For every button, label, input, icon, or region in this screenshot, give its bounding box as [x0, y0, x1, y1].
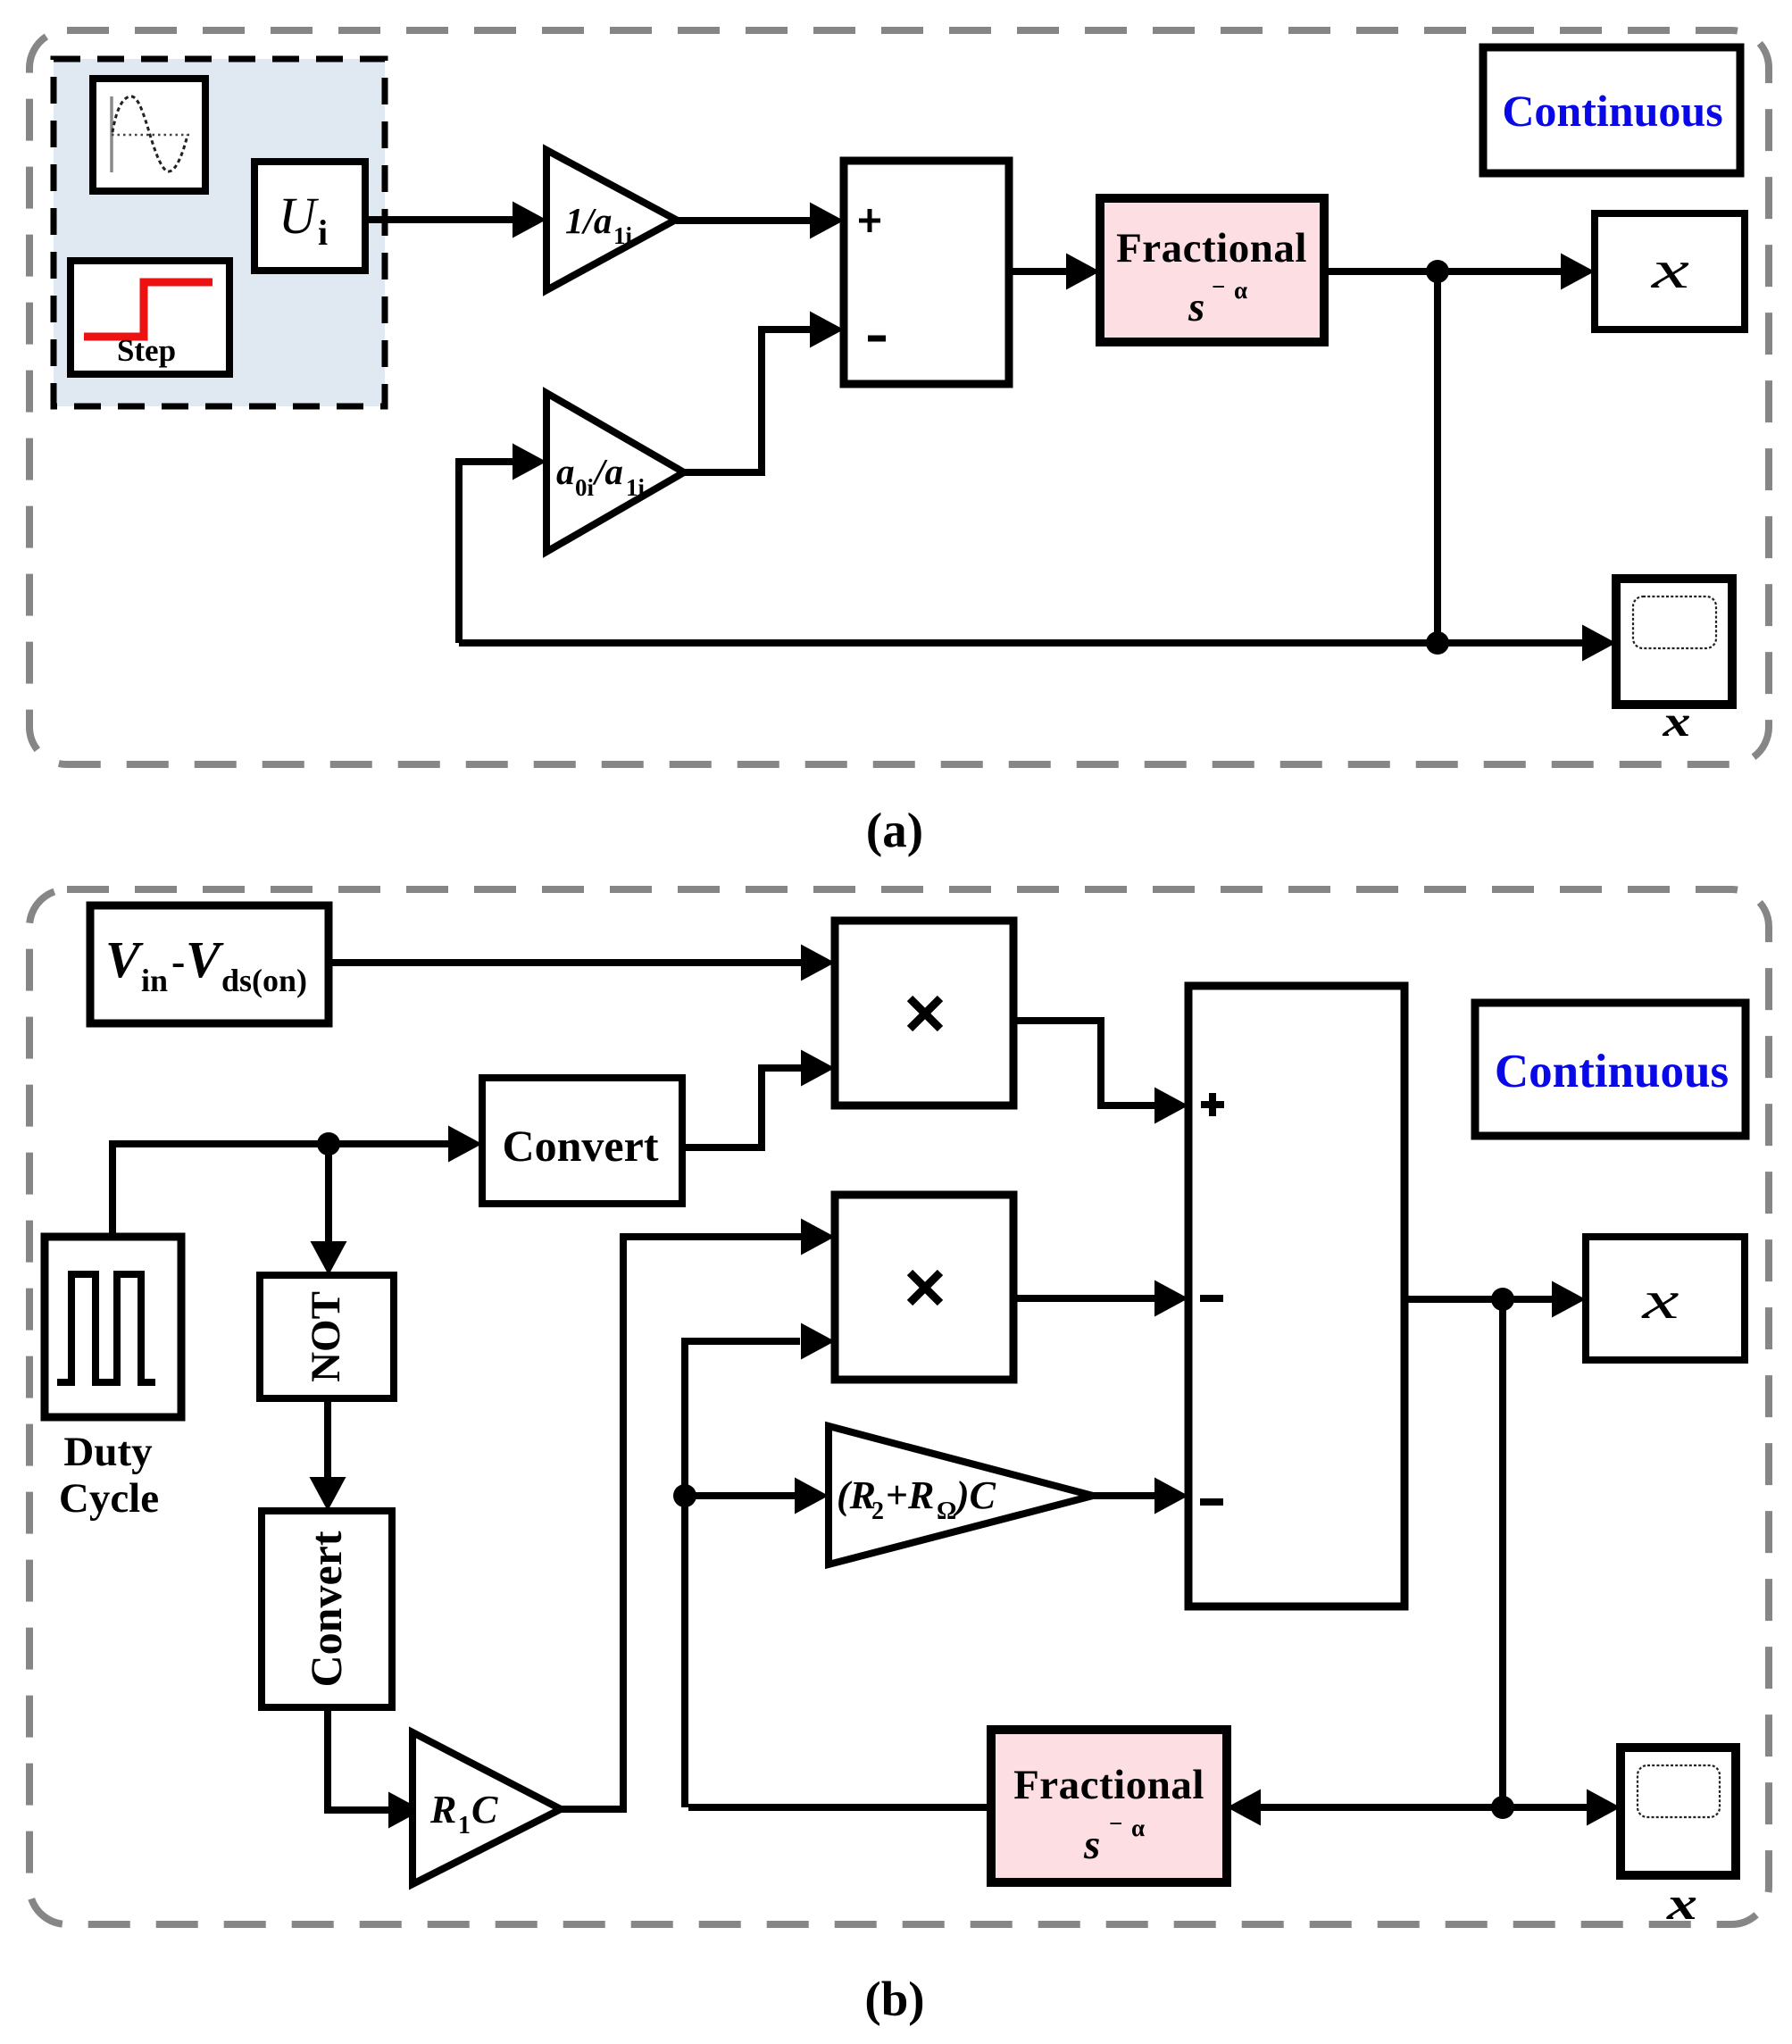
- Fractional s^-a block (a): [1100, 198, 1324, 342]
- wire gain 1/a1i to sum plus input: [676, 203, 844, 239]
- label (b): [864, 1972, 924, 2026]
- scope label x (b): [1666, 1879, 1697, 1930]
- wire junction to gain (R2+RO)C input: [685, 1478, 829, 1514]
- wire NOT to Convert vertical: [310, 1398, 346, 1511]
- svg-text:a: a: [556, 451, 575, 492]
- svg-text:NOT: NOT: [303, 1291, 349, 1382]
- junction node on scope (b) line: [1491, 1796, 1514, 1819]
- svg-text:R: R: [907, 1473, 934, 1517]
- wire Convert to product1 second input: [682, 1050, 835, 1148]
- junction node at sum (b) output: [1491, 1288, 1514, 1311]
- wire duty junction down to NOT: [311, 1144, 347, 1275]
- Duty Cycle source block: [45, 1237, 181, 1417]
- Fractional s^-a block (b): [991, 1730, 1227, 1882]
- svg-text:V: V: [105, 930, 144, 989]
- vertical wire from sum output junction down (b): [1499, 1299, 1506, 1807]
- svg-text:α: α: [1234, 277, 1247, 304]
- svg-text:U: U: [279, 187, 320, 245]
- svg-text:Convert: Convert: [503, 1121, 659, 1171]
- svg-text:V: V: [186, 930, 224, 989]
- Ui input block: [254, 162, 365, 271]
- svg-text:s: s: [1083, 1822, 1100, 1868]
- wire Convert vertical to gain R1C: [328, 1707, 422, 1829]
- Continuous annotation (b): [1475, 1003, 1746, 1136]
- svg-text:R: R: [429, 1788, 456, 1831]
- svg-text:1: 1: [458, 1812, 471, 1840]
- wire Vin to product1: [329, 945, 835, 981]
- gain R1C: [413, 1732, 561, 1884]
- svg-text:Step: Step: [117, 333, 176, 368]
- panel (b) dashed border: [29, 889, 1769, 1924]
- svg-text:in: in: [141, 963, 168, 998]
- svg-text:i: i: [318, 213, 328, 253]
- svg-text:(R: (R: [837, 1473, 876, 1517]
- label (a): [866, 803, 923, 857]
- product block 1: [835, 921, 1013, 1105]
- wire sum (b) to x display: [1404, 1281, 1586, 1318]
- input subsystem blue dashed box: [54, 59, 385, 406]
- wire Fractional (b) output to feedback riser: [688, 1804, 991, 1811]
- Convert block (vertical): [262, 1511, 392, 1707]
- svg-text:x: x: [1650, 240, 1689, 299]
- gain 1/a1i: [546, 150, 676, 290]
- feedback riser wire (b): [685, 1323, 835, 1808]
- svg-text:x: x: [1666, 1879, 1697, 1930]
- sum block (b): [1188, 986, 1404, 1606]
- svg-text:α: α: [1131, 1815, 1145, 1841]
- svg-text:Continuous: Continuous: [1495, 1046, 1729, 1097]
- svg-text:/a: /a: [592, 451, 623, 492]
- gain a0i/a1i: [546, 393, 684, 552]
- wire gain (R2+RO)C to sum second minus input: [1093, 1478, 1188, 1514]
- feedback wire to scope (a): [459, 625, 1616, 662]
- panel (a) dashed border: [29, 30, 1769, 764]
- svg-text:+: +: [886, 1473, 908, 1517]
- wire junction to Fractional (b) input: [1227, 1790, 1503, 1826]
- svg-text:C: C: [471, 1788, 498, 1831]
- wire feedback to gain a0i/a1i input: [459, 444, 546, 644]
- svg-text:Cycle: Cycle: [59, 1475, 159, 1522]
- sum block (a): [844, 161, 1009, 384]
- scope label x (a): [1662, 697, 1690, 746]
- wire junction down to feedback line: [1434, 271, 1441, 643]
- svg-text:Fractional: Fractional: [1116, 225, 1307, 271]
- svg-text:Continuous: Continuous: [1502, 86, 1722, 136]
- svg-text:Ω: Ω: [937, 1498, 956, 1525]
- svg-text:1i: 1i: [626, 474, 646, 501]
- gain (R2+RO)C: [829, 1426, 1093, 1564]
- wire Fractional to x display: [1324, 254, 1595, 290]
- Duty Cycle label: [59, 1429, 159, 1522]
- svg-text:-: -: [171, 939, 185, 984]
- svg-text:2: 2: [871, 1498, 884, 1525]
- svg-text:x: x: [1641, 1271, 1679, 1330]
- x display block (a): [1595, 213, 1745, 330]
- svg-text:−: −: [1212, 273, 1225, 300]
- wire sum to Fractional: [1009, 254, 1100, 290]
- svg-text:x: x: [1662, 697, 1690, 746]
- NOT logic block: [260, 1275, 394, 1398]
- scope block (a): [1616, 579, 1732, 705]
- scope block (b): [1621, 1748, 1736, 1875]
- svg-text:(a): (a): [866, 803, 923, 857]
- product block 2: [835, 1195, 1013, 1380]
- junction node on feedback line (a): [1426, 631, 1449, 655]
- svg-text:−: −: [1109, 1810, 1122, 1837]
- wire product2 to sum first minus input: [1013, 1281, 1188, 1317]
- svg-text:Duty: Duty: [63, 1429, 153, 1475]
- wire junction to scope (b): [1503, 1790, 1621, 1826]
- junction node on feedback riser (b): [673, 1484, 696, 1507]
- junction node on duty cycle wire: [317, 1132, 340, 1155]
- svg-text:)C: )C: [953, 1473, 996, 1517]
- svg-text:1/a: 1/a: [565, 200, 612, 241]
- wire gain a0i/a1i to sum minus input: [684, 312, 844, 473]
- sine wave source block: [93, 79, 205, 191]
- svg-text:Fractional: Fractional: [1013, 1762, 1204, 1808]
- svg-text:(b): (b): [864, 1972, 924, 2026]
- svg-text:Convert: Convert: [301, 1531, 351, 1687]
- wire Ui to gain 1/a1i: [365, 202, 546, 238]
- svg-text:ds(on): ds(on): [221, 963, 307, 998]
- wire R1C to product2 first input: [561, 1219, 835, 1810]
- junction node at Fractional (a) output: [1426, 260, 1449, 283]
- x display block (b): [1586, 1237, 1745, 1360]
- Continuous annotation (a): [1483, 47, 1740, 173]
- svg-text:1i: 1i: [613, 222, 633, 249]
- duty cycle distribution wire: [113, 1126, 482, 1238]
- svg-text:0i: 0i: [575, 474, 595, 501]
- Convert block (horizontal): [482, 1078, 682, 1204]
- Vin-Vds(on) source block: [90, 905, 329, 1023]
- svg-text:s: s: [1188, 284, 1204, 330]
- Step source block: [71, 261, 229, 374]
- wire product1 to sum plus input: [1013, 1021, 1188, 1124]
